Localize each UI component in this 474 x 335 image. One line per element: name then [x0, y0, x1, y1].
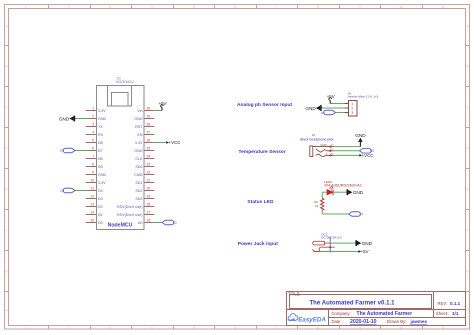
DC1 refdes — [321, 232, 342, 239]
company row — [332, 311, 413, 317]
svg-text:+5V: +5V — [159, 101, 167, 106]
svg-text:D4: D4 — [98, 189, 103, 193]
svg-text:+5V: +5V — [361, 249, 369, 254]
svg-text:19: 19 — [147, 194, 151, 198]
svg-text:D7: D7 — [60, 149, 64, 153]
NodeMCU module U1 — [86, 77, 155, 230]
R2 refdes — [314, 200, 318, 208]
U1 pin 20 (SD2) — [135, 186, 154, 193]
svg-text:D5: D5 — [98, 165, 103, 169]
svg-text:The Automated Farmer: The Automated Farmer — [357, 311, 413, 317]
ground flag at H1 pin 2 — [305, 105, 321, 111]
svg-text:The Automated Farmer v0.1.1: The Automated Farmer v0.1.1 — [309, 299, 395, 306]
svg-text:CLK: CLK — [135, 157, 143, 161]
svg-text:9: 9 — [92, 170, 94, 174]
svg-text:3: 3 — [351, 111, 353, 115]
ground flag at J2 — [355, 133, 366, 146]
svg-text:3: 3 — [109, 326, 111, 330]
svg-text:14: 14 — [90, 210, 94, 214]
svg-text:GND: GND — [134, 149, 143, 153]
U1 pin 30 (Vin) — [137, 106, 154, 113]
svg-text:SD3: SD3 — [135, 197, 142, 201]
svg-text:RSV(Don't use): RSV(Don't use) — [117, 205, 143, 209]
svg-text:8: 8 — [92, 162, 94, 166]
netport A0 at H1 — [321, 110, 336, 115]
DC1 pin 3 switch contact — [319, 246, 335, 248]
U1 refdes label — [116, 77, 134, 85]
svg-text:A0: A0 — [173, 221, 177, 225]
U1 body — [97, 86, 145, 230]
section label: Analog ph Sensor Input — [237, 102, 293, 108]
svg-text:G: G — [466, 269, 469, 273]
wire GND to H1 pin 2 — [321, 107, 345, 109]
svg-text:6: 6 — [234, 5, 236, 9]
svg-text:1k: 1k — [315, 204, 319, 208]
svg-text:4: 4 — [92, 130, 94, 134]
sheet cell — [436, 311, 459, 316]
U1 pin 28 (RST) — [135, 122, 154, 128]
power flag +5V at U1 pin 30 — [159, 101, 167, 110]
drawn by cell — [387, 319, 428, 324]
J2 pin 2 (sleeve) — [313, 143, 334, 148]
svg-text:D1: D1 — [98, 213, 103, 217]
svg-text:jawmes: jawmes — [410, 319, 428, 324]
U1 pin 1 (3.3V) — [86, 106, 107, 113]
svg-text:15: 15 — [90, 218, 94, 222]
U1 pin 15 (D0) — [86, 218, 103, 225]
svg-text:1: 1 — [351, 102, 353, 106]
svg-text:2: 2 — [68, 326, 70, 330]
svg-text:6: 6 — [234, 326, 236, 330]
svg-text:Analog ph Sensor Input: Analog ph Sensor Input — [237, 102, 293, 108]
svg-text:F: F — [466, 228, 468, 232]
netport A0 at U1 — [162, 220, 177, 225]
svg-text:EN: EN — [137, 133, 142, 137]
U1 pin 19 (SD3) — [135, 194, 154, 201]
netport D4 at U1 — [60, 188, 75, 193]
svg-text:27: 27 — [147, 130, 151, 134]
U1 pin 4 (RX) — [86, 130, 104, 137]
svg-text:8: 8 — [317, 326, 319, 330]
svg-text:REV:: REV: — [438, 301, 448, 306]
J2 refdes — [300, 133, 333, 142]
svg-text:5: 5 — [92, 138, 94, 142]
svg-text:D7: D7 — [98, 149, 103, 153]
svg-text:D8: D8 — [98, 141, 103, 145]
svg-text:7: 7 — [92, 154, 94, 158]
wire pin16 to A0 port — [155, 222, 163, 224]
svg-text:Vin: Vin — [137, 109, 142, 113]
svg-text:2: 2 — [351, 107, 353, 111]
wire LED2 cathode to GND — [333, 191, 347, 193]
svg-text:Sheet:: Sheet: — [436, 311, 448, 316]
power flag +VCC at J2 — [359, 153, 373, 158]
svg-text:GND: GND — [320, 143, 326, 147]
svg-text:30: 30 — [147, 106, 151, 110]
svg-text:RX: RX — [98, 133, 104, 137]
wire R2 to D7 port — [322, 210, 348, 214]
U1 pin 23 (SD0) — [135, 162, 154, 169]
svg-text:TITLE:: TITLE: — [288, 292, 301, 297]
svg-text:6: 6 — [92, 146, 94, 150]
svg-text:0.1.1: 0.1.1 — [450, 301, 461, 306]
svg-text:+5V: +5V — [327, 94, 335, 99]
U1 pin 13 (D2) — [86, 202, 103, 209]
wire pin2 to GND — [75, 118, 86, 120]
U1 pin 21 (SD1) — [135, 178, 154, 185]
power flag +VCC at U1 pin 26 — [166, 140, 180, 145]
U1 pin 22 (CMD) — [134, 170, 154, 177]
svg-text:24: 24 — [147, 154, 151, 158]
U1 pin 9 (GND) — [86, 170, 107, 177]
svg-text:D0: D0 — [98, 221, 103, 225]
section label: Temperature Sensor — [239, 149, 286, 155]
svg-text:GND: GND — [362, 241, 373, 246]
svg-text:11: 11 — [441, 326, 445, 330]
wire pin26 to +VCC — [155, 142, 167, 144]
svg-text:22: 22 — [147, 170, 151, 174]
title block TITLE label — [288, 292, 301, 297]
svg-text:9: 9 — [359, 5, 361, 9]
H1 pin 1 — [345, 102, 354, 106]
svg-text:RST: RST — [135, 125, 143, 129]
svg-text:RSV(Don't use): RSV(Don't use) — [117, 213, 143, 217]
wire pin6 to D7 port — [75, 150, 86, 152]
section label: Power Jack Input — [238, 241, 279, 247]
U1 pin 8 (D5) — [86, 162, 103, 169]
svg-text:8: 8 — [317, 5, 319, 9]
J2 pin 1 (tip) — [316, 152, 334, 157]
svg-text:2020-01-10: 2020-01-10 — [350, 319, 377, 325]
wire J2 ring to D4 port — [334, 150, 359, 152]
svg-text:17: 17 — [147, 210, 151, 214]
svg-text:GND: GND — [98, 117, 107, 121]
svg-text:7: 7 — [276, 5, 278, 9]
U1 pin 25 (GND) — [134, 146, 154, 153]
svg-text:CMD: CMD — [134, 173, 143, 177]
svg-text:Date:: Date: — [332, 319, 342, 324]
svg-text:+VCC: +VCC — [362, 153, 374, 158]
section label: Status LED — [247, 199, 274, 205]
svg-text:+VCC: +VCC — [169, 140, 181, 145]
U1 pin 11 (D4) — [86, 186, 103, 193]
wire DC1 center pin to GND — [332, 242, 356, 244]
svg-text:5: 5 — [193, 326, 195, 330]
netport D7 at U1 — [60, 148, 75, 153]
H1 refdes — [348, 91, 379, 98]
svg-text:D4: D4 — [60, 189, 64, 193]
U1 pin 3 (TX) — [86, 122, 104, 128]
resistor R2 1k — [314, 198, 324, 210]
svg-text:10: 10 — [399, 5, 403, 9]
svg-text:3: 3 — [109, 5, 111, 9]
svg-text:GND: GND — [59, 116, 70, 121]
netport D4 at J2 — [359, 149, 374, 154]
svg-text:4: 4 — [151, 326, 153, 330]
H1 pin 2 — [345, 107, 354, 111]
svg-text:16: 16 — [147, 218, 151, 222]
U1 pin 27 (EN) — [137, 130, 154, 137]
svg-text:Temperature Sensor: Temperature Sensor — [239, 149, 286, 155]
J2 pin 3 (ring) — [316, 147, 334, 152]
title text: The Automated Farmer v0.1.1 — [309, 299, 395, 306]
svg-text:GND: GND — [305, 106, 316, 111]
U1 pin 6 (D7) — [86, 146, 103, 153]
svg-text:29: 29 — [147, 114, 151, 118]
svg-text:Power Jack input: Power Jack input — [238, 241, 279, 247]
svg-text:3: 3 — [92, 122, 94, 126]
svg-text:NODEMCU: NODEMCU — [116, 80, 134, 84]
svg-text:11: 11 — [90, 186, 94, 190]
svg-text:3.3V: 3.3V — [98, 109, 106, 113]
svg-text:SD0: SD0 — [135, 165, 142, 169]
ground flag at DC1 — [356, 240, 372, 246]
U1 pin 2 (GND) — [86, 114, 107, 121]
svg-text:TX: TX — [98, 125, 103, 129]
wire +5V to H1 pin 1 — [330, 103, 344, 105]
wire DC1 sleeve to +5V — [322, 251, 358, 253]
U1 pin 14 (D1) — [86, 210, 103, 217]
LED2 refdes — [324, 180, 361, 188]
svg-text:D7: D7 — [359, 212, 363, 216]
svg-text:GND: GND — [353, 190, 364, 195]
J2 sleeve barrel — [310, 146, 313, 157]
wire pin30 to +5V — [155, 110, 163, 112]
U1 pin 18 (RSV(Don't use)) — [117, 202, 155, 209]
svg-text:D6: D6 — [98, 157, 103, 161]
netport D7 at R2 — [349, 212, 364, 217]
H1 body — [349, 101, 358, 117]
U1 pin 5 (D8) — [86, 138, 103, 145]
svg-text:13: 13 — [90, 202, 94, 206]
svg-text:23: 23 — [147, 162, 151, 166]
LED2 symbol — [327, 185, 334, 195]
H1 pin 3 — [345, 111, 354, 115]
svg-text:EasyEDA: EasyEDA — [298, 316, 326, 323]
power flag +5V at H1 — [327, 94, 335, 103]
wire LED2 anode bend to R2 — [322, 192, 327, 198]
U1 pin 7 (D6) — [86, 154, 103, 161]
svg-text:3.3V: 3.3V — [98, 181, 106, 185]
connector H1 Header-Male 2.54_1x3 — [345, 91, 379, 116]
svg-text:A0: A0 — [321, 111, 325, 115]
svg-text:10: 10 — [90, 178, 94, 182]
R2 symbol — [321, 198, 324, 210]
title block frame — [287, 292, 466, 326]
svg-text:D2: D2 — [98, 205, 103, 209]
svg-text:7: 7 — [276, 326, 278, 330]
wire pin11 to D4 port — [75, 190, 86, 192]
svg-text:1/1: 1/1 — [452, 311, 459, 316]
svg-text:NodeMCU: NodeMCU — [108, 223, 133, 229]
U1 pin 12 (D3) — [86, 194, 103, 201]
svg-text:Status LED: Status LED — [247, 199, 274, 205]
svg-text:3.3V: 3.3V — [135, 141, 143, 145]
svg-text:12: 12 — [90, 194, 94, 198]
ground flag at LED2 — [347, 189, 363, 195]
U1 pin 10 (3.3V) — [86, 178, 107, 185]
svg-text:28: 28 — [147, 122, 151, 126]
U1 pin 16 (A0) — [138, 218, 155, 225]
DC1 pin 1 center barrel — [313, 241, 332, 245]
svg-text:204-10SURD/S530-A3: 204-10SURD/S530-A3 — [324, 183, 361, 187]
wire J2 sleeve to GND — [334, 146, 360, 148]
svg-text:SD2: SD2 — [135, 189, 142, 193]
svg-text:GND: GND — [134, 117, 143, 121]
svg-text:Black headphone jack: Black headphone jack — [300, 138, 333, 142]
wire A0 port to H1 pin 3 — [336, 112, 345, 114]
ground flag at U1 pin 2 — [59, 116, 75, 122]
power jack DC1 DC-005-5A-2.0 — [312, 232, 342, 251]
svg-text:GND: GND — [355, 133, 366, 138]
wire DC1 switch to sleeve (vertical) — [329, 237, 331, 252]
svg-text:5: 5 — [193, 5, 195, 9]
svg-text:25: 25 — [147, 146, 151, 150]
U1 pin 29 (GND) — [134, 114, 154, 121]
svg-text:G: G — [5, 269, 8, 273]
svg-text:4: 4 — [151, 5, 153, 9]
svg-text:11: 11 — [441, 5, 445, 9]
DC1 pin 2 sleeve contact — [312, 248, 322, 252]
svg-text:DC-005-5A-2.0: DC-005-5A-2.0 — [321, 235, 342, 239]
EasyEDA logo — [288, 314, 326, 324]
svg-text:Drawn By:: Drawn By: — [387, 319, 406, 324]
svg-text:2: 2 — [92, 114, 94, 118]
svg-text:26: 26 — [147, 138, 151, 142]
svg-text:Company:: Company: — [332, 311, 351, 316]
svg-text:20: 20 — [147, 186, 151, 190]
wire J2 tip to +VCC — [334, 154, 359, 156]
svg-text:1: 1 — [25, 326, 27, 330]
svg-text:21: 21 — [147, 178, 151, 182]
svg-text:2: 2 — [68, 5, 70, 9]
svg-text:GND: GND — [98, 173, 107, 177]
svg-text:10: 10 — [399, 326, 403, 330]
svg-text:D3: D3 — [98, 197, 103, 201]
svg-text:A0: A0 — [138, 221, 143, 225]
svg-text:F: F — [5, 228, 7, 232]
svg-text:1: 1 — [25, 5, 27, 9]
LED LED2 204-10SURD/S530-A3 — [324, 180, 361, 195]
connector J2 black headphone jack — [300, 133, 334, 157]
REV cell — [438, 301, 461, 306]
svg-text:J2: J2 — [312, 133, 316, 137]
U1 pin 24 (CLK) — [135, 154, 154, 161]
power flag +5V right at DC1 — [358, 249, 368, 254]
svg-text:1: 1 — [92, 106, 94, 110]
U1 pin 26 (3.3V) — [135, 138, 155, 145]
svg-text:SD1: SD1 — [135, 181, 142, 185]
svg-text:9: 9 — [359, 326, 361, 330]
svg-text:Header-Male 2.54_1x3: Header-Male 2.54_1x3 — [348, 95, 379, 99]
U1 pin 17 (RSV(Don't use)) — [117, 210, 155, 217]
date row — [332, 319, 377, 325]
svg-text:18: 18 — [147, 202, 151, 206]
